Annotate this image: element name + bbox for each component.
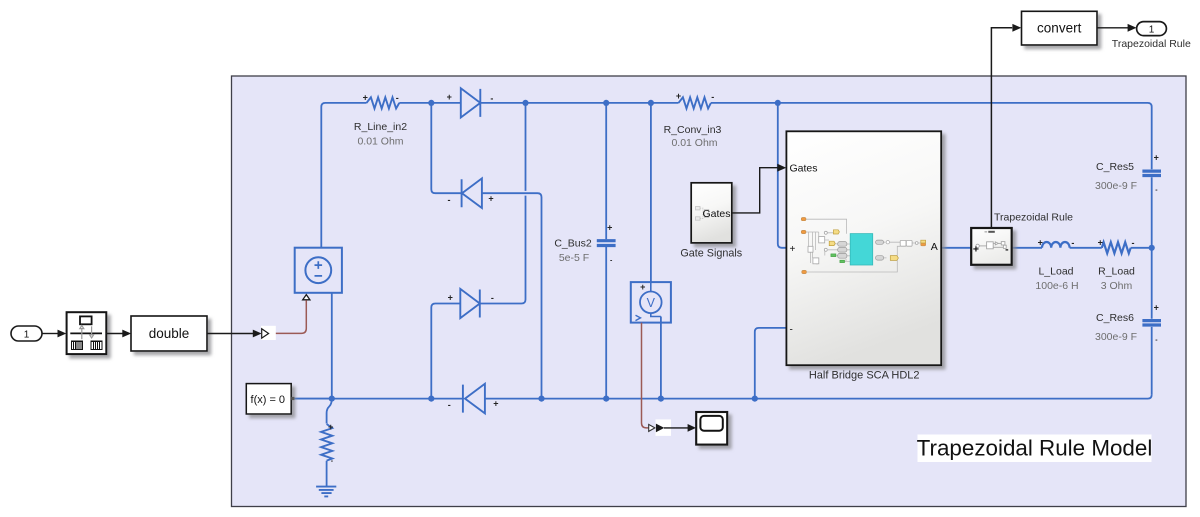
wire resistor to ground: [326, 461, 328, 487]
voltage source U1: [295, 248, 342, 293]
svg-text:C_Bus2: C_Bus2: [554, 238, 592, 250]
svg-text:+: +: [676, 91, 681, 101]
svg-text:5e-5 F: 5e-5 F: [559, 252, 589, 264]
signal wire gates to half-bridge: [732, 168, 778, 213]
svg-text:300e-9 F: 300e-9 F: [1095, 180, 1137, 192]
svg-text:L_Load: L_Load: [1038, 266, 1073, 278]
svg-text:+: +: [640, 282, 645, 292]
diode D1: [461, 88, 481, 117]
wire half-bridge minus to bottom bus: [755, 328, 787, 399]
diode D3: [460, 289, 480, 318]
arrowhead into scope: [688, 424, 696, 432]
svg-text:1: 1: [1149, 24, 1155, 35]
rate transition block: [67, 312, 107, 354]
capacitor C_Res5: [1142, 171, 1161, 175]
svg-text:C_Res5: C_Res5: [1096, 161, 1134, 173]
wire diode D2 left branch: [431, 103, 461, 193]
svg-text:double: double: [149, 326, 190, 341]
svg-text:Gates: Gates: [702, 208, 730, 220]
node top bus D3: [522, 100, 528, 106]
svg-text:+: +: [973, 243, 979, 255]
wire load line: [1012, 247, 1152, 249]
cyan core block: [850, 234, 873, 265]
node load line right bus: [1149, 245, 1155, 251]
inductor L_Load: [1042, 242, 1070, 248]
svg-text:V: V: [647, 296, 656, 310]
svg-text:+: +: [790, 244, 796, 255]
svg-text:+: +: [447, 92, 452, 102]
signal wire trapezoidal to convert: [991, 28, 1012, 228]
fx port nub: [291, 397, 294, 400]
node bottom bus D3: [428, 396, 434, 402]
wire diode D2 right branch: [482, 193, 542, 398]
svg-text:300e-9 F: 300e-9 F: [1095, 331, 1137, 343]
scope block: [696, 412, 727, 445]
wire source minus to bottom bus: [331, 293, 333, 399]
svg-text:Gate Signals: Gate Signals: [680, 247, 742, 259]
resistor R_Load: [1102, 242, 1131, 253]
svg-text:+: +: [328, 422, 333, 432]
half bridge subsystem block: [786, 131, 941, 365]
svg-text:100e-6 H: 100e-6 H: [1035, 280, 1078, 292]
svg-text:Trapezoidal Rule: Trapezoidal Rule: [994, 212, 1073, 224]
wire voltage sensor bottom to bus: [660, 317, 662, 399]
wire top bus: [321, 103, 1151, 395]
svg-text:0.01 Ohm: 0.01 Ohm: [671, 137, 717, 149]
signal wire convert to outport: [1097, 24, 1137, 32]
gates source block: [691, 183, 732, 243]
svg-text:1: 1: [24, 329, 30, 340]
svg-text:+: +: [1154, 152, 1159, 162]
wire half-bridge plus input: [778, 103, 787, 248]
svg-text:-: -: [490, 94, 493, 104]
svg-text:f(x) = 0: f(x) = 0: [251, 394, 286, 406]
svg-text:R_Load: R_Load: [1098, 266, 1135, 278]
node top bus sensor: [648, 100, 654, 106]
diode D4: [463, 384, 485, 414]
resistor R_Conv_in3: [679, 97, 711, 108]
control port triangle of source: [303, 295, 310, 300]
wire voltage sensor top branch: [650, 103, 652, 282]
node bottom bus sensor: [658, 396, 664, 402]
scope converter triangle: [649, 424, 655, 431]
capacitor C_Res6: [1142, 321, 1161, 325]
node bottom bus source: [329, 396, 335, 402]
svg-text:-: -: [491, 293, 494, 303]
data type conversion block double: [131, 316, 207, 351]
svg-text:+: +: [448, 292, 453, 302]
voltage sensor V1: [631, 282, 671, 323]
wire A output to trapezoidal block: [941, 247, 971, 249]
signal wire to scope: [664, 427, 688, 429]
svg-text:-: -: [1132, 238, 1135, 248]
subsystem background box: [232, 76, 1187, 507]
node top bus half-bridge: [775, 100, 781, 106]
svg-text:Gates: Gates: [790, 162, 818, 174]
svg-text:Half Bridge SCA HDL2: Half Bridge SCA HDL2: [809, 370, 920, 382]
svg-text:-: -: [396, 93, 399, 103]
physical-signal wire sensor to scope converter: [642, 323, 649, 428]
node bottom bus C_Bus2: [603, 396, 609, 402]
svg-text:-: -: [711, 92, 714, 102]
arrowhead into convert: [1012, 24, 1021, 32]
arrowhead into half-bridge gates input: [777, 164, 786, 172]
wire ground branch: [327, 399, 332, 424]
svg-text:-: -: [1071, 238, 1074, 248]
ground: [316, 487, 336, 497]
node bottom bus D2: [538, 396, 544, 402]
svg-text:-: -: [448, 195, 451, 205]
node top bus D2: [428, 100, 434, 106]
svg-text:+: +: [488, 194, 493, 204]
svg-text:-: -: [790, 324, 793, 335]
svg-text:-: -: [448, 400, 451, 410]
outport 1: [1137, 22, 1167, 36]
svg-text:+: +: [493, 399, 498, 409]
wire C_Bus2 branch: [605, 103, 607, 399]
svg-text:+: +: [607, 223, 612, 233]
svg-text:+: +: [1154, 302, 1159, 312]
svg-text:0.01 Ohm: 0.01 Ohm: [357, 136, 403, 148]
white patch scope line: [656, 419, 672, 436]
svg-text:+: +: [1038, 237, 1043, 247]
wire bottom bus: [294, 395, 1151, 399]
node top bus C_Bus2: [603, 100, 609, 106]
fx constant block: [246, 384, 291, 414]
inport 1: [11, 326, 42, 341]
physical-signal wire double to source: [268, 300, 306, 333]
wire diode D3 right branch: [480, 103, 526, 304]
resistor to ground vertical: [321, 424, 332, 461]
resistor R_Line_in2: [367, 97, 400, 108]
annotation Trapezoidal Rule Model: [918, 435, 1152, 463]
trapezoidal rule block: [971, 228, 1012, 265]
svg-text:R_Line_in2: R_Line_in2: [354, 121, 407, 133]
node bottom bus half-bridge: [752, 396, 758, 402]
polarity marks group: [328, 91, 1159, 465]
half bridge inner thumbnail: [801, 218, 925, 274]
svg-text:Trapezoidal Rule: Trapezoidal Rule: [1112, 38, 1191, 50]
signal wire rate transition to double: [106, 330, 131, 338]
svg-text:convert: convert: [1037, 21, 1082, 36]
signal wire inport to rate transition: [42, 330, 66, 338]
scope screen: [700, 416, 722, 431]
svg-text:-: -: [1005, 244, 1009, 256]
white patch at subsystem edge: [261, 326, 276, 340]
svg-text:A: A: [931, 241, 938, 253]
svg-text:Trapezoidal Rule Model: Trapezoidal Rule Model: [917, 436, 1153, 461]
svg-text:+: +: [1098, 237, 1103, 247]
signal wire double to simulink-ps converter: [207, 330, 262, 338]
wire fx to junction: [294, 398, 332, 400]
diode D2: [462, 178, 482, 208]
svg-text:3 Ohm: 3 Ohm: [1101, 280, 1133, 292]
svg-text:+: +: [363, 92, 368, 102]
input converter triangle: [262, 329, 269, 338]
arrowhead after converter: [656, 424, 664, 433]
wire diode D3 left branch: [431, 304, 460, 399]
svg-text:R_Conv_in3: R_Conv_in3: [664, 124, 722, 136]
capacitor C_Bus2: [597, 241, 616, 246]
svg-text:C_Res6: C_Res6: [1096, 312, 1134, 324]
convert block: [1022, 11, 1098, 45]
